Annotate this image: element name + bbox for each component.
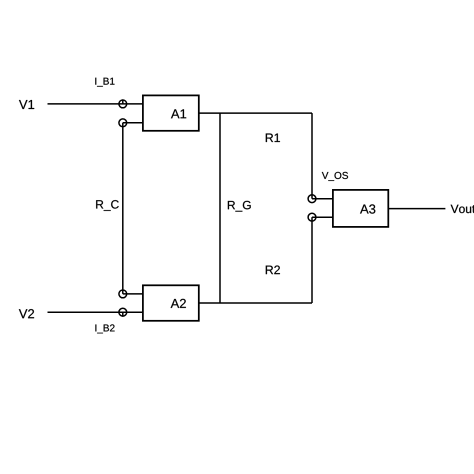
wire I_B2 bias tick — [122, 312, 124, 317]
node V1 terminal — [119, 100, 127, 108]
wire V2 input — [48, 311, 143, 313]
op-amp A1 label — [171, 109, 186, 118]
wire I_B1 bias tick — [122, 99, 124, 104]
node label Vout — [451, 205, 474, 213]
node A3 top input terminal — [308, 195, 316, 203]
node label V1 — [19, 100, 34, 109]
wire A1 output — [199, 112, 312, 114]
wire A1 inverting input — [123, 122, 142, 124]
node A2 noninverting terminal — [119, 290, 127, 298]
op-amp A2 label — [171, 299, 186, 308]
resistor label R1 — [266, 134, 280, 142]
resistor label R2 — [266, 266, 280, 275]
label V_OS — [322, 172, 348, 181]
node A1 inverting terminal — [119, 119, 127, 127]
op-amp A1 box — [143, 95, 199, 130]
node label V2 — [19, 309, 34, 318]
wire A2 input — [123, 293, 142, 295]
node V2 terminal — [119, 308, 127, 316]
wire A3 top input — [312, 198, 332, 200]
label I_B1 — [95, 78, 114, 87]
op-amp A3 label — [360, 204, 375, 213]
wire A2 output — [199, 302, 312, 304]
wire R1 — [311, 113, 313, 199]
resistor label R_G — [228, 201, 251, 212]
resistor label R_C — [96, 200, 119, 211]
wire A3 bottom input — [312, 216, 332, 218]
wire R_C — [122, 123, 124, 294]
wire V1 input — [48, 103, 143, 105]
wire R2 — [311, 217, 313, 303]
label I_B2 — [95, 324, 114, 333]
wire R_G — [219, 113, 221, 303]
wire A3 output — [388, 208, 445, 210]
op-amp A3 box — [333, 190, 388, 227]
op-amp A2 box — [143, 285, 199, 321]
node A3 bottom input terminal — [308, 213, 316, 221]
